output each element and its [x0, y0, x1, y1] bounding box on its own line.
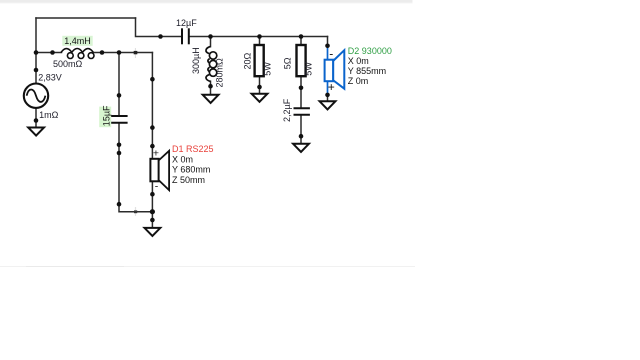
junction at source top / inductor line [34, 50, 39, 55]
wire 5ohm top [300, 37, 302, 45]
AC source V1 circle [24, 84, 48, 108]
speaker D2 horn [333, 50, 344, 88]
node D1 minus terminal [150, 192, 155, 197]
node R2 bottom terminal [299, 86, 304, 91]
node D1 plus terminal [150, 144, 155, 149]
junction R1 top [257, 34, 262, 39]
speaker D1 horn [159, 151, 169, 190]
svg-text:+: + [328, 80, 335, 94]
svg-text:D2 930000: D2 930000 [348, 46, 392, 56]
node D2 top terminal [325, 44, 330, 49]
svg-text:280mΩ: 280mΩ [215, 58, 225, 88]
junction D1 branch / return wire [150, 209, 155, 214]
wire D2 ground stub [327, 95, 329, 101]
svg-text:300µH: 300µH [191, 47, 201, 74]
wire D1 below speaker [151, 181, 153, 228]
svg-text:2,83V: 2,83V [38, 72, 62, 82]
node marker on bottom wire [135, 207, 136, 216]
node wire segment end below 15uF [117, 151, 122, 156]
wire D1 branch down [151, 53, 153, 159]
node L1 left terminal [50, 50, 55, 55]
node 15uF top terminal [117, 93, 122, 98]
svg-text:12µF: 12µF [176, 18, 197, 28]
capacitor 15uF plates [111, 116, 128, 123]
node wire segment end above corner [117, 202, 122, 207]
node L1 right terminal [100, 50, 105, 55]
resistor R1 20ohm body [255, 45, 264, 76]
inductor L1 1.4mH loops [61, 49, 94, 59]
svg-text:D1 RS225: D1 RS225 [172, 144, 214, 154]
svg-text:5W: 5W [263, 62, 273, 76]
wire 2.2uF to ground [300, 115, 302, 143]
wire top-right down jog [136, 18, 182, 37]
wire mid rail after 12uF [190, 36, 328, 38]
capacitor 12uF plates [182, 28, 189, 44]
speaker D2 body [325, 60, 334, 81]
svg-text:20Ω: 20Ω [242, 52, 252, 69]
label 15uF green [99, 107, 111, 128]
wire 15uF branch [118, 53, 120, 116]
node R1 bottom terminal [257, 85, 262, 90]
AC source sine [27, 89, 46, 101]
svg-text:X 0m: X 0m [172, 154, 193, 164]
junction R2 top [299, 34, 304, 39]
wire 20ohm top [259, 37, 261, 45]
svg-text:-: - [155, 181, 159, 193]
svg-text:1,4mH: 1,4mH [64, 36, 91, 46]
speaker D2 blue wire [327, 46, 329, 95]
label 1.4mH green [62, 36, 92, 46]
wire top rail [36, 17, 136, 19]
speaker D1 wire through [151, 159, 153, 181]
node D2 bottom terminal [325, 93, 330, 98]
svg-text:Y 855mm: Y 855mm [348, 66, 386, 76]
ground below D2 [320, 101, 336, 109]
svg-text:15µF: 15µF [102, 105, 112, 126]
node 2.2uF bottom terminal [299, 134, 304, 139]
ground below source [28, 128, 44, 136]
svg-text:2,2µF: 2,2µF [282, 98, 292, 122]
wire 15uF to bottom corner [119, 124, 152, 212]
ground below 300uH [203, 95, 219, 103]
wire source bottom [35, 108, 37, 128]
svg-text:Z 50mm: Z 50mm [172, 175, 205, 185]
svg-text:Y 680mm: Y 680mm [172, 165, 210, 175]
ground below 20ohm [252, 94, 268, 102]
wire 300uH bottom [210, 81, 212, 94]
junction L2 top [208, 34, 213, 39]
top window edge band [0, 0, 413, 3]
capacitor 2.2uF plates [294, 108, 310, 115]
node wire segment mid D1 branch [150, 125, 155, 130]
ground below D1 [145, 228, 161, 236]
svg-text:1mΩ: 1mΩ [39, 110, 59, 120]
svg-text:5W: 5W [304, 62, 314, 76]
svg-text:Z 0m: Z 0m [348, 76, 369, 86]
node source minus terminal [34, 118, 39, 123]
node marker on inductor line [135, 48, 136, 58]
ground below 2.2uF [293, 144, 309, 152]
wire inductor line left [36, 52, 62, 54]
speaker D1 body [150, 159, 158, 182]
svg-text:500mΩ: 500mΩ [53, 59, 83, 69]
wire source top vertical [35, 18, 37, 84]
node L2 bottom terminal [208, 84, 213, 89]
node wire segment end D1 branch [150, 77, 155, 82]
svg-text:X 0m: X 0m [348, 56, 369, 66]
wire inductor line right [93, 52, 152, 54]
wire 300uH top [210, 37, 212, 47]
svg-text:5Ω: 5Ω [283, 57, 293, 69]
svg-text:-: - [329, 47, 333, 61]
node source plus terminal [34, 68, 39, 73]
wire D2 top stub [327, 37, 329, 46]
svg-text:+: + [153, 147, 159, 159]
wire 20ohm bottom [259, 77, 261, 93]
junction 15uF branch tap [117, 50, 122, 55]
node 15uF bottom terminal [117, 143, 122, 148]
inductor L2 300uH vertical loops [206, 47, 217, 82]
node 12uF left terminal [158, 34, 163, 39]
resistor R2 5ohm body [297, 45, 306, 76]
node ground stub D1 [150, 218, 155, 223]
wire 5ohm to 2.2uF [300, 77, 302, 107]
faint separator line [0, 266, 415, 267]
